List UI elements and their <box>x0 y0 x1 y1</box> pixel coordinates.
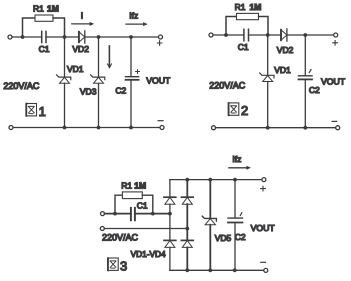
svg-text:VD1: VD1 <box>67 64 84 74</box>
svg-text:C1: C1 <box>238 42 249 52</box>
node C2 bottom ckt3 <box>233 268 237 272</box>
wire VD3 branch <box>98 37 100 128</box>
node C2 top <box>129 35 133 39</box>
label R1 ckt2 <box>235 2 246 12</box>
diode VD3 bridge lower-left <box>164 240 176 247</box>
node C2 bottom <box>129 126 133 130</box>
wire AC line upper right segment <box>135 213 170 215</box>
node bridge left mid <box>168 212 172 216</box>
wire R1 right stub ckt3 <box>142 195 153 213</box>
label plus ckt1 <box>157 41 162 46</box>
wire AC line upper left segment <box>105 213 131 215</box>
wire top rail right segment ckt2 <box>249 34 336 36</box>
label C1 ckt3 <box>137 201 148 211</box>
node VD3 bottom <box>97 126 101 130</box>
wire top rail left segment <box>12 36 42 38</box>
label VOUT ckt3 <box>251 223 276 233</box>
resistor R1 ckt2 <box>237 13 259 19</box>
node C1/R1/VD1 junction <box>63 35 67 39</box>
label figure 1 glyph <box>26 104 37 117</box>
terminal AC input top-left ckt2 <box>209 33 213 37</box>
terminal output minus ckt3 <box>264 268 268 272</box>
wire VD1 branch <box>64 37 66 128</box>
wire R1 left stub ckt3 <box>115 195 122 213</box>
svg-text:R1: R1 <box>33 3 44 13</box>
wire VD5 branch <box>209 180 211 271</box>
label plus of C2 ckt3 <box>240 213 242 216</box>
wire bridge left branch <box>169 180 171 271</box>
terminal output plus ckt3 <box>262 178 266 182</box>
label minus ckt1 <box>158 120 163 122</box>
svg-text:C1: C1 <box>39 44 50 54</box>
wire C2 branch lower <box>130 80 132 128</box>
wire top rail right segment <box>46 36 161 38</box>
svg-text:Ifz: Ifz <box>129 10 138 20</box>
wire bottom rail ckt3 <box>170 269 266 271</box>
node VD3 top <box>97 35 101 39</box>
terminal output plus ckt2 <box>334 33 338 37</box>
svg-text:C2: C2 <box>309 85 320 95</box>
svg-text:1M: 1M <box>134 181 146 191</box>
node R1 right ckt3 <box>151 212 155 216</box>
current arrow Ifz ckt3 <box>229 166 251 170</box>
capacitor C2 electrolytic ckt2 <box>299 76 313 80</box>
svg-text:VD1: VD1 <box>274 65 291 75</box>
wire C2 branch lower ckt2 <box>304 79 306 127</box>
wire top rail ckt3 <box>170 179 264 181</box>
node C2 top ckt2 <box>303 33 307 37</box>
resistor R1 <box>35 15 53 21</box>
svg-text:VD2: VD2 <box>277 45 294 55</box>
label figure 2 glyph <box>228 103 239 116</box>
zener diode VD5 <box>202 216 216 225</box>
zener diode VD1 ckt2 <box>260 73 274 82</box>
wire VD1 branch ckt2 <box>267 35 269 128</box>
label figure 3 glyph <box>108 258 119 271</box>
label VD1-VD4 <box>131 249 166 259</box>
terminal output minus ckt2 <box>336 126 340 130</box>
label figure 2 number <box>241 103 248 118</box>
svg-text:R1: R1 <box>235 2 246 12</box>
label VD2 <box>72 44 89 54</box>
diode VD4 bridge lower-right <box>181 240 193 247</box>
current arrow down <box>108 46 112 68</box>
node bridge right mid <box>185 227 189 231</box>
label plus ckt2 <box>333 41 338 46</box>
node VD1 bottom ckt2 <box>266 126 270 130</box>
svg-text:C1: C1 <box>137 201 148 211</box>
capacitor C1 ckt3 <box>131 208 135 221</box>
svg-text:VD3: VD3 <box>80 87 97 97</box>
label 1M <box>47 3 59 13</box>
label 220V/AC <box>3 81 40 91</box>
node bridge right bottom <box>185 268 189 272</box>
wire C2 branch upper ckt3 <box>234 180 236 218</box>
svg-text:220V/AC: 220V/AC <box>3 81 40 91</box>
current arrow I <box>72 22 94 26</box>
label VD3 <box>80 87 97 97</box>
label plus of C2 ckt2 <box>309 70 311 73</box>
svg-text:VOUT: VOUT <box>146 76 171 86</box>
svg-text:220V/AC: 220V/AC <box>102 233 139 243</box>
label C2 ckt2 <box>309 85 320 95</box>
wire C2 branch upper <box>130 37 132 77</box>
terminal output minus bottom-right <box>160 126 164 130</box>
wire AC line lower <box>104 228 187 230</box>
wire R1 left stub <box>23 18 36 37</box>
label figure 3 number <box>120 258 127 273</box>
label VOUT ckt2 <box>321 77 346 87</box>
zener diode VD3 <box>91 75 105 84</box>
wire C2 branch upper ckt2 <box>304 35 306 76</box>
node VD1 bottom <box>63 126 67 130</box>
svg-text:VOUT: VOUT <box>321 77 346 87</box>
terminal AC input upper ckt3 <box>101 212 105 216</box>
label minus ckt2 <box>332 120 337 122</box>
svg-text:2: 2 <box>241 103 248 118</box>
node bridge right top <box>185 178 189 182</box>
node C2 bottom ckt2 <box>303 126 307 130</box>
svg-text:1M: 1M <box>250 2 262 12</box>
svg-text:1: 1 <box>39 104 46 119</box>
label C2 <box>115 85 126 95</box>
label VD5 <box>215 233 232 243</box>
node VD5 top <box>208 178 212 182</box>
label VD1 <box>67 64 84 74</box>
label VOUT <box>146 76 171 86</box>
capacitor C1 <box>42 31 46 42</box>
terminal AC input bottom-left <box>9 126 13 130</box>
svg-text:1M: 1M <box>47 3 59 13</box>
node R1 left ckt2 <box>224 33 228 37</box>
diode VD2 bridge upper-right <box>181 197 193 204</box>
wire C2 branch lower ckt3 <box>234 223 236 271</box>
capacitor C2 electrolytic ckt3 <box>228 218 242 222</box>
label Ifz <box>129 10 138 20</box>
label 220V/AC ckt3 <box>102 233 139 243</box>
label plus of C2 <box>136 70 140 74</box>
capacitor C1 ckt2 <box>244 29 249 41</box>
label R1 ckt3 <box>121 181 132 191</box>
wire top rail left segment ckt2 <box>213 34 244 36</box>
svg-text:C2: C2 <box>235 232 246 242</box>
terminal output plus top-right <box>159 35 163 39</box>
label C1 ckt2 <box>238 42 249 52</box>
svg-text:VD1-VD4: VD1-VD4 <box>131 249 166 259</box>
label VD2 ckt2 <box>277 45 294 55</box>
wire R1 right stub ckt2 <box>259 17 269 36</box>
label VD1 ckt2 <box>274 65 291 75</box>
label R1 <box>33 3 44 13</box>
svg-text:VD5: VD5 <box>215 233 232 243</box>
wire bridge right branch <box>186 180 188 271</box>
label Ifz ckt3 <box>232 154 241 164</box>
label C2 ckt3 <box>235 232 246 242</box>
current arrow Ifz <box>126 22 148 26</box>
svg-text:VD2: VD2 <box>72 44 89 54</box>
svg-text:Ifz: Ifz <box>232 154 241 164</box>
node R1 left ckt3 <box>113 212 117 216</box>
label figure 1 number <box>39 104 46 119</box>
diode VD2 <box>79 31 85 43</box>
wire R1 left stub ckt2 <box>226 17 237 36</box>
resistor R1 ckt3 <box>122 192 142 199</box>
terminal AC input bottom-left ckt2 <box>212 126 216 130</box>
label 220V/AC ckt2 <box>209 80 246 90</box>
svg-text:VOUT: VOUT <box>251 223 276 233</box>
label plus ckt3 <box>261 186 266 191</box>
zener diode VD1 <box>57 75 71 84</box>
capacitor C2 electrolytic <box>126 77 139 80</box>
svg-text:C2: C2 <box>115 85 126 95</box>
node C2 top ckt3 <box>233 178 237 182</box>
label I <box>81 11 83 21</box>
node R1/VD1 junction ckt2 <box>266 33 270 37</box>
diode VD2 ckt2 <box>281 29 287 41</box>
node VD5 bottom <box>208 268 212 272</box>
wire bottom rail <box>13 127 160 129</box>
wire R1 right stub <box>53 18 65 37</box>
terminal AC input top-left <box>8 35 12 39</box>
label minus ckt3 <box>261 261 266 263</box>
label 1M ckt3 <box>134 181 146 191</box>
svg-text:3: 3 <box>120 258 127 273</box>
svg-text:I: I <box>81 11 83 21</box>
terminal AC input lower ckt3 <box>100 227 104 231</box>
svg-text:220V/AC: 220V/AC <box>209 80 246 90</box>
label 1M ckt2 <box>250 2 262 12</box>
node R1 left <box>21 35 25 39</box>
diode VD1 bridge upper-left <box>164 197 176 204</box>
svg-text:R1: R1 <box>121 181 132 191</box>
wire bottom rail ckt2 <box>216 127 336 129</box>
label C1 <box>39 44 50 54</box>
